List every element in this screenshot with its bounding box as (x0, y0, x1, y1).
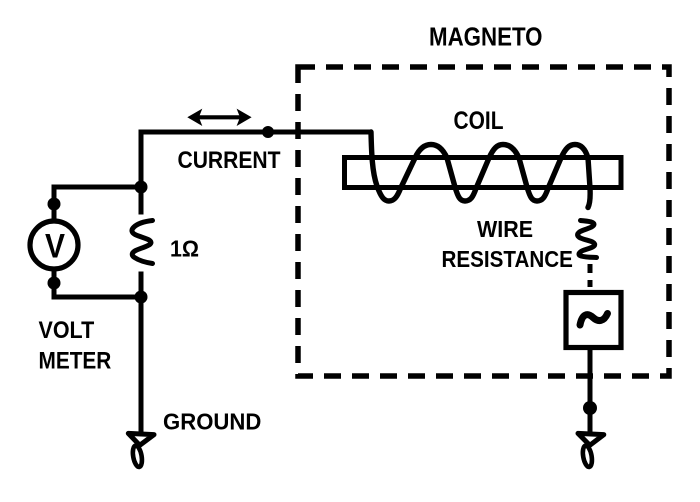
wire: top horizontal with left corner (141, 132, 371, 190)
svg-text:MAGNETO: MAGNETO (429, 23, 543, 51)
AC source (box) (566, 293, 621, 348)
AC source tilde (580, 314, 608, 326)
svg-text:VOLT: VOLT (39, 317, 95, 344)
ground symbol right (loop) (581, 445, 593, 468)
resistor R1 1 ohm (squiggle) (132, 221, 153, 264)
ground symbol right (arrowhead) (578, 433, 604, 445)
ground symbol left (loop) (131, 445, 143, 468)
svg-text:V: V (45, 228, 65, 266)
resistor: coil wire resistance (squiggle) (578, 221, 597, 258)
node: voltmeter bottom terminal (48, 277, 61, 290)
coil core bar (345, 158, 622, 188)
wire: below AC source (588, 350, 593, 433)
ground symbol left (arrowhead) (128, 433, 154, 445)
svg-text:METER: METER (39, 348, 112, 375)
wire: voltmeter bottom branch (54, 267, 141, 297)
magneto enclosure (dashed box) (298, 67, 669, 376)
current direction double arrow (187, 109, 251, 126)
wire: trunk lower segment (1 ohm to ground) (139, 272, 144, 434)
node: trunk lower junction (135, 291, 148, 304)
wire: dashed connector to AC source (588, 264, 593, 287)
svg-text:COIL: COIL (454, 107, 504, 135)
wire: voltmeter top branch (54, 187, 141, 220)
node: junction below AC source (583, 401, 597, 415)
wire: trunk upper segment (junction to 1 ohm resistor) (139, 185, 144, 215)
svg-text:WIRE: WIRE (477, 216, 533, 242)
voltmeter V (circle) (30, 221, 78, 269)
node: voltmeter top terminal (48, 198, 61, 211)
node: trunk upper junction (135, 181, 148, 194)
coil winding (371, 132, 590, 208)
svg-text:CURRENT: CURRENT (178, 147, 281, 174)
svg-text:RESISTANCE: RESISTANCE (442, 246, 573, 272)
svg-text:GROUND: GROUND (163, 409, 261, 435)
node: junction dot on top wire (262, 126, 274, 138)
svg-text:1Ω: 1Ω (170, 236, 199, 262)
